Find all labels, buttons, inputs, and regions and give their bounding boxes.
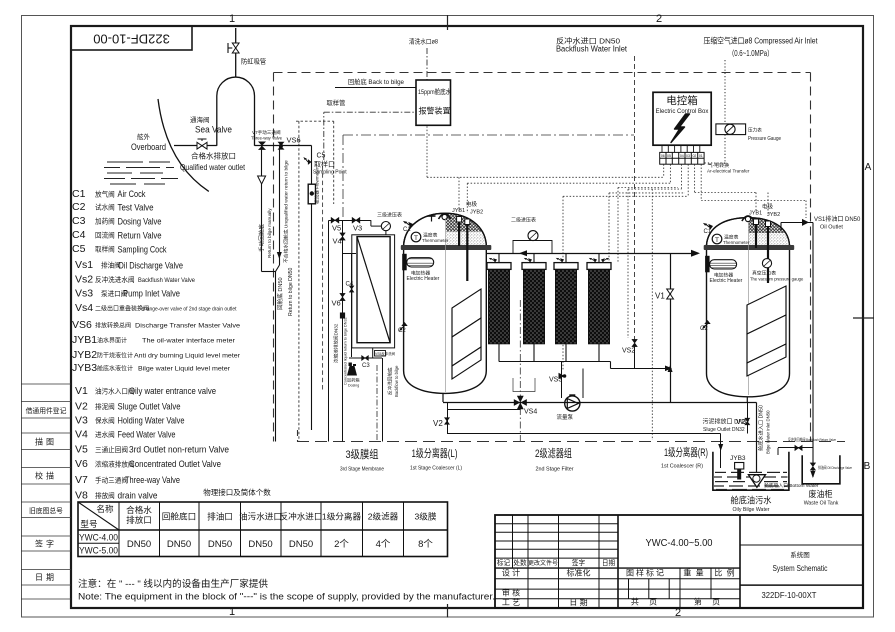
svg-text:1级分离器(R): 1级分离器(R) — [664, 445, 708, 459]
svg-text:1: 1 — [229, 606, 235, 618]
svg-text:C2: C2 — [700, 326, 708, 332]
svg-text:Oil Discharge Valve: Oil Discharge Valve — [118, 261, 183, 271]
svg-text:报警装置: 报警装置 — [419, 106, 451, 116]
left margin strip cells — [21, 384, 71, 599]
svg-text:舱底水液位计: 舱底水液位计 — [97, 365, 133, 373]
svg-text:V3: V3 — [353, 224, 362, 233]
svg-text:2级滤器: 2级滤器 — [368, 511, 399, 522]
svg-text:二级进压表: 二级进压表 — [511, 217, 536, 224]
gooseneck vent pipe — [217, 77, 255, 146]
svg-text:油水界面计: 油水界面计 — [97, 337, 127, 345]
svg-text:Electric Control Box: Electric Control Box — [656, 109, 709, 115]
tank L flange — [401, 245, 492, 250]
svg-text:VS5反冲洗阀: VS5反冲洗阀 — [375, 351, 396, 356]
sampling boundary dash-dot — [343, 134, 634, 136]
cock C2 tank L — [399, 322, 408, 331]
drain V2 tank L — [447, 403, 449, 434]
svg-text:V3: V3 — [75, 415, 88, 427]
tank L centerline — [445, 218, 447, 392]
svg-text:加药箱: 加药箱 — [347, 377, 360, 384]
svg-text:取样口: 取样口 — [314, 160, 335, 169]
svg-text:Air Cock: Air Cock — [118, 189, 146, 199]
tank L bottom nozzle — [442, 393, 444, 402]
svg-text:重 量: 重 量 — [683, 568, 704, 578]
svg-text:Vs4: Vs4 — [75, 302, 93, 314]
svg-text:标记: 标记 — [497, 558, 511, 567]
svg-text:设 计: 设 计 — [502, 568, 520, 578]
svg-text:15ppm舱底水: 15ppm舱底水 — [418, 87, 451, 96]
svg-text:Sluge Outlet DN32: Sluge Outlet DN32 — [703, 427, 745, 433]
membrane frame — [352, 235, 395, 348]
tank L dome — [404, 213, 487, 245]
svg-text:视流器 Flowmeter: 视流器 Flowmeter — [314, 167, 321, 204]
svg-text:Vs3: Vs3 — [75, 288, 93, 300]
svg-text:排放转换总阀: 排放转换总阀 — [95, 322, 131, 330]
valve V3 — [352, 217, 360, 222]
svg-text:drain valve: drain valve — [118, 491, 158, 501]
svg-text:Bilge water Liquid level meter: Bilge water Liquid level meter — [138, 367, 230, 373]
svg-text:反冲洗回舱阀 Backflush Return Valve: 反冲洗回舱阀 Backflush Return Valve — [788, 437, 836, 442]
valve V4 feed line — [342, 221, 344, 442]
tank R centerline — [748, 222, 750, 395]
hull curve — [158, 99, 209, 191]
svg-text:The oil-water interface meter: The oil-water interface meter — [142, 339, 235, 345]
flow indicator — [308, 184, 315, 204]
valve V7 three-way — [258, 142, 266, 150]
pressure gauge air — [716, 124, 746, 135]
svg-text:Oily water entrance valve: Oily water entrance valve — [129, 386, 216, 396]
svg-text:C2: C2 — [398, 328, 406, 334]
tank R dome — [707, 218, 790, 245]
zone tick bottom — [447, 604, 449, 618]
filter bank 2nd stage — [487, 253, 672, 371]
svg-text:压缩空气进口ø8 Compressed Air Inlet: 压缩空气进口ø8 Compressed Air Inlet — [704, 36, 819, 46]
svg-text:物理接口及筒体个数: 物理接口及筒体个数 — [203, 487, 271, 497]
svg-text:VS2: VS2 — [622, 348, 635, 355]
svg-text:Oily Bilge Water: Oily Bilge Water — [733, 507, 770, 513]
svg-text:System Schematic: System Schematic — [773, 564, 828, 573]
svg-text:C1: C1 — [704, 229, 712, 235]
svg-text:舱底油污水: 舱底油污水 — [731, 495, 772, 506]
svg-text:1: 1 — [229, 13, 235, 25]
svg-text:Holding Water Valve: Holding Water Valve — [118, 416, 185, 426]
svg-text:1st Coalescer (R): 1st Coalescer (R) — [661, 464, 703, 470]
filter F4 — [587, 253, 611, 343]
backflush return valve line — [777, 448, 779, 455]
svg-text:Vs1: Vs1 — [75, 259, 93, 271]
svg-text:通海阀: 通海阀 — [190, 115, 210, 124]
valve sea valve — [197, 142, 207, 149]
svg-text:VS1排油口 DN50: VS1排油口 DN50 — [814, 215, 861, 223]
bottom pipe tank L outlet — [443, 402, 671, 404]
svg-text:（0.6~1.0MPa）: （0.6~1.0MPa） — [728, 49, 773, 58]
cock C1 tank L — [403, 219, 414, 230]
svg-text:保水阀: 保水阀 — [95, 416, 115, 425]
membrane element with diagonal — [357, 237, 390, 343]
tank R bottom nozzle — [746, 397, 748, 403]
svg-text:日 期: 日 期 — [569, 598, 587, 607]
filter F3 — [554, 253, 578, 343]
svg-text:Electric Heater: Electric Heater — [407, 276, 440, 282]
svg-text:试水阀: 试水阀 — [95, 203, 115, 212]
svg-text:Anti dry burning Liquid level: Anti dry burning Liquid level meter — [134, 354, 240, 360]
svg-text:C5: C5 — [72, 243, 86, 255]
tank L shell — [404, 250, 487, 393]
wire flushing water dash-dot down — [426, 48, 428, 80]
svg-text:C3: C3 — [362, 363, 370, 369]
svg-text:JYB2: JYB2 — [767, 212, 780, 218]
physical connection table — [78, 502, 448, 557]
svg-text:V4: V4 — [75, 429, 88, 441]
svg-text:取样阀: 取样阀 — [95, 245, 115, 254]
svg-text:V6: V6 — [75, 458, 88, 470]
overboard discharge pipe — [174, 145, 217, 147]
svg-text:VS3: VS3 — [549, 377, 562, 384]
arrow on manifold — [665, 366, 672, 372]
thermometer tank R — [712, 234, 722, 244]
membrane bottom piping — [372, 348, 374, 358]
15ppm bilge alarm device — [416, 80, 451, 125]
fitting below V6 — [340, 313, 345, 319]
svg-text:防虹吸管: 防虹吸管 — [241, 57, 266, 66]
svg-text:三通止回阀: 三通止回阀 — [95, 445, 128, 454]
suction strainer funnel — [748, 475, 765, 488]
svg-text:8个: 8个 — [418, 539, 433, 550]
svg-text:B: B — [864, 461, 871, 472]
drain line to bilge tank — [447, 433, 721, 435]
svg-text:3rd Stage Membrane: 3rd Stage Membrane — [340, 467, 384, 473]
title block — [495, 515, 863, 608]
tank L lifting lug — [439, 214, 451, 219]
pipe clean water riser — [311, 146, 313, 431]
svg-text:油污水进口: 油污水进口 — [239, 511, 282, 522]
funnel air gap — [258, 176, 266, 184]
thermometer tank L — [411, 232, 421, 242]
control signal dotted harness — [427, 125, 806, 440]
svg-text:2: 2 — [656, 13, 662, 25]
svg-text:C1: C1 — [403, 227, 411, 233]
svg-text:放气阀: 放气阀 — [95, 190, 115, 199]
svg-text:3rd Outlet non-return Valve: 3rd Outlet non-return Valve — [129, 445, 229, 455]
svg-text:旧底图总号: 旧底图总号 — [29, 506, 63, 515]
svg-text:Test Valve: Test Valve — [118, 203, 154, 213]
svg-text:1级分离器(L): 1级分离器(L) — [412, 446, 458, 460]
svg-text:浓缩液排放阀DN32: 浓缩液排放阀DN32 — [333, 323, 340, 363]
svg-text:C1: C1 — [72, 188, 86, 200]
svg-text:废油柜: 废油柜 — [809, 489, 833, 499]
svg-text:更改文件号: 更改文件号 — [528, 559, 558, 567]
dosing pump and tank — [347, 366, 357, 376]
svg-text:反冲洗进水阀: 反冲洗进水阀 — [95, 275, 135, 284]
svg-text:YWC-5.00: YWC-5.00 — [79, 546, 118, 557]
svg-text:DN50: DN50 — [127, 539, 151, 550]
svg-text:V7: V7 — [75, 474, 88, 486]
svg-text:Concentrated liquid return to: Concentrated liquid return to bilge DN32 — [344, 317, 348, 385]
bilge water tank — [713, 452, 819, 513]
svg-text:排油口: 排油口 — [207, 511, 233, 522]
svg-text:YWC-4.00: YWC-4.00 — [79, 533, 118, 544]
vent fitting tank L — [431, 216, 433, 222]
svg-text:DN50: DN50 — [289, 539, 313, 550]
pipe return to bilge manually — [261, 146, 263, 177]
svg-text:T: T — [414, 235, 418, 242]
svg-text:V2: V2 — [75, 401, 88, 413]
valve V6 — [340, 293, 345, 300]
svg-text:T: T — [715, 237, 719, 244]
svg-text:比 例: 比 例 — [714, 568, 735, 578]
svg-text:1st Stage Coalescer (L): 1st Stage Coalescer (L) — [410, 466, 462, 472]
tank R flange — [704, 245, 795, 250]
svg-text:注意：在 " --- " 线以内的设备由生产厂家提供: 注意：在 " --- " 线以内的设备由生产厂家提供 — [78, 578, 269, 590]
svg-text:Backflush Water Valve: Backflush Water Valve — [138, 277, 195, 284]
sampling line dash-dot through VS4 — [519, 300, 521, 441]
backflush unit VS5 — [375, 351, 386, 357]
svg-text:2nd Stage Filter: 2nd Stage Filter — [536, 467, 574, 473]
tank R lifting lug — [742, 216, 754, 221]
svg-text:共 页: 共 页 — [631, 598, 661, 607]
svg-text:排泥阀: 排泥阀 — [95, 402, 115, 411]
svg-text:Dosing Valve: Dosing Valve — [118, 217, 162, 227]
valve VS3 and transfer pump — [561, 362, 563, 399]
svg-text:05: 05 — [667, 154, 671, 158]
svg-text:压力表: 压力表 — [748, 127, 762, 134]
svg-text:322DF-10-00: 322DF-10-00 — [93, 32, 170, 47]
svg-text:Pump Inlet Valve: Pump Inlet Valve — [123, 289, 180, 299]
svg-text:合格水: 合格水 — [126, 504, 152, 515]
svg-text:Qualified water outlet: Qualified water outlet — [180, 162, 246, 172]
svg-text:4个: 4个 — [376, 539, 391, 550]
pipe return to bilge down — [275, 272, 277, 442]
svg-text:322DF-10-00XT: 322DF-10-00XT — [762, 590, 817, 600]
wire backflush dashed down — [634, 56, 636, 340]
svg-text:标准化: 标准化 — [567, 568, 591, 578]
sludge drop into bilge tank — [720, 434, 722, 469]
anti-siphon pipe from top border — [235, 28, 237, 78]
svg-text:描图: 描图 — [35, 437, 57, 447]
svg-text:舷外: 舷外 — [137, 132, 151, 141]
svg-text:Concentrated Outlet Valve: Concentrated Outlet Valve — [129, 459, 221, 469]
valve oil discharge — [810, 463, 815, 470]
svg-text:工 艺: 工 艺 — [502, 598, 520, 607]
svg-text:Electric Heater: Electric Heater — [710, 278, 743, 284]
svg-text:Overboard: Overboard — [131, 142, 166, 152]
svg-text:change-over valve of 2nd stage: change-over valve of 2nd stage drain out… — [142, 307, 238, 313]
suction pipe bilge to manifold — [671, 402, 757, 404]
svg-text:三级进压表: 三级进压表 — [377, 212, 402, 219]
svg-text:V1: V1 — [75, 385, 88, 397]
svg-text:V4: V4 — [333, 237, 342, 246]
svg-text:V2: V2 — [433, 419, 443, 428]
svg-text:电极: 电极 — [466, 200, 478, 208]
bilge water surface dashes — [714, 472, 788, 489]
svg-text:Backflow to bilge: Backflow to bilge — [394, 365, 399, 397]
svg-text:加药阀: 加药阀 — [95, 217, 115, 226]
sludge drain tank R V2 — [747, 403, 749, 434]
svg-text:Pressure Gauge: Pressure Gauge — [748, 136, 781, 142]
svg-text:Three-way Valve: Three-way Valve — [125, 475, 180, 485]
pipe unqualified water return — [279, 146, 281, 266]
svg-text:型号: 型号 — [80, 519, 97, 529]
svg-text:校描: 校描 — [35, 471, 57, 481]
svg-text:2个: 2个 — [334, 539, 349, 550]
svg-text:流量泵: 流量泵 — [557, 413, 574, 421]
svg-text:A: A — [865, 162, 872, 173]
tank R internal coalescer plates — [747, 286, 786, 376]
svg-text:合格水排放口: 合格水排放口 — [191, 151, 236, 161]
valve VS4 change-over — [514, 396, 527, 410]
membrane unit 3rd stage — [329, 212, 403, 442]
svg-text:Three-way Valve: Three-way Valve — [251, 136, 283, 141]
svg-text:V1: V1 — [655, 292, 665, 301]
valve VS6 — [279, 144, 283, 148]
valve V5 line — [329, 220, 371, 222]
svg-text:04: 04 — [680, 154, 684, 158]
cock C1 tank R — [703, 221, 714, 232]
dotted enclosure left — [296, 120, 334, 122]
svg-text:03: 03 — [686, 154, 690, 158]
svg-text:YWC-4.00~5.00: YWC-4.00~5.00 — [646, 537, 713, 549]
svg-text:Sea Valve: Sea Valve — [195, 125, 232, 135]
svg-text:2级滤器组: 2级滤器组 — [535, 446, 572, 460]
svg-text:JYB1: JYB1 — [72, 334, 97, 346]
sea water hatching — [104, 162, 178, 184]
svg-text:DN50: DN50 — [208, 539, 232, 550]
svg-text:JYB3: JYB3 — [730, 455, 746, 462]
valve C3 dosing — [362, 356, 369, 361]
svg-text:图样标记: 图样标记 — [626, 568, 666, 578]
svg-text:Return Valve: Return Valve — [118, 231, 162, 241]
svg-text:排放口: 排放口 — [126, 514, 152, 525]
svg-text:DN50: DN50 — [167, 539, 191, 550]
svg-text:排放阀: 排放阀 — [95, 491, 115, 500]
pipe back to bilge from alarm — [335, 87, 416, 89]
svg-text:Return to bilge manually: Return to bilge manually — [267, 208, 272, 258]
svg-text:C4: C4 — [72, 229, 86, 241]
backflush return line — [382, 358, 384, 442]
svg-text:电控箱: 电控箱 — [666, 94, 698, 107]
svg-text:Bilge Water Inlet DN50: Bilge Water Inlet DN50 — [766, 410, 771, 454]
title strip box 322DF-10-00 rotated — [71, 26, 192, 50]
svg-text:回舱底口: 回舱底口 — [162, 511, 196, 522]
svg-text:Discharge Transfer Master Valv: Discharge Transfer Master Valve — [135, 323, 241, 330]
arrow down on return pipe — [277, 252, 282, 259]
sampling pipe to alarm dash-dot — [323, 112, 325, 160]
svg-text:反冲水进口: 反冲水进口 — [280, 511, 323, 522]
svg-text:进水阀: 进水阀 — [95, 430, 115, 439]
svg-text:Return to bilge DN50: Return to bilge DN50 — [288, 267, 294, 316]
svg-text:取样管: 取样管 — [327, 98, 346, 107]
svg-text:真空压力表: 真空压力表 — [752, 270, 776, 277]
filter outlet manifold — [499, 344, 671, 369]
svg-text:借通用件登记: 借通用件登记 — [26, 406, 67, 415]
svg-text:日期: 日期 — [602, 559, 616, 567]
svg-text:第 页: 第 页 — [694, 597, 724, 607]
svg-text:日期: 日期 — [35, 573, 57, 582]
svg-text:不合格水回舱底 Unqualified water retu: 不合格水回舱底 Unqualified water return to bilg… — [283, 160, 290, 263]
lightning bolt symbol — [671, 114, 690, 143]
svg-text:V2: V2 — [736, 417, 745, 426]
svg-text:回舱底 DN50: 回舱底 DN50 — [276, 277, 284, 310]
svg-text:C2: C2 — [72, 201, 86, 213]
vacuum gauge tank R — [762, 259, 771, 268]
svg-text:手动三通阀: 手动三通阀 — [95, 476, 128, 485]
zone tick right — [853, 317, 874, 319]
svg-text:JYB1: JYB1 — [749, 211, 762, 217]
svg-text:审 核: 审 核 — [502, 588, 520, 598]
svg-text:1级分离器: 1级分离器 — [322, 511, 362, 522]
svg-text:Note: The equipment in the blo: Note: The equipment in the block of "---… — [78, 592, 495, 603]
tank R shell — [707, 250, 790, 397]
svg-text:Waste Oil Tank: Waste Oil Tank — [804, 501, 839, 507]
filter F2 — [522, 253, 546, 343]
waste oil tank — [802, 455, 840, 506]
svg-text:回流阀: 回流阀 — [95, 231, 115, 240]
svg-text:V8: V8 — [75, 490, 88, 502]
svg-text:Oil Outlet: Oil Outlet — [820, 225, 843, 231]
oil outlet VS1 line — [780, 222, 782, 230]
piping frame above VS4 — [513, 378, 535, 392]
svg-text:3级膜: 3级膜 — [415, 511, 437, 522]
svg-text:名称: 名称 — [96, 503, 114, 514]
svg-text:签字: 签字 — [35, 539, 57, 549]
svg-text:V5: V5 — [332, 224, 341, 233]
svg-text:Ar-electrical Transfer: Ar-electrical Transfer — [707, 169, 750, 174]
svg-text:Backflush Water Inlet: Backflush Water Inlet — [556, 45, 628, 54]
electric heater tank L — [402, 254, 407, 270]
svg-text:02: 02 — [692, 154, 696, 158]
valve VS2 backflush inlet — [632, 339, 637, 346]
tank L 1st stage coalescer L — [398, 200, 491, 402]
svg-text:VS6: VS6 — [72, 319, 92, 331]
svg-text:JYB2: JYB2 — [470, 210, 483, 216]
supply scope dashed boundary bottom — [297, 441, 845, 443]
legend list — [72, 188, 97, 502]
zone tick top — [447, 15, 449, 30]
pipe second outlet line — [448, 409, 521, 411]
svg-text:回舱底 Back to bilge: 回舱底 Back to bilge — [348, 77, 404, 86]
svg-text:JYB2: JYB2 — [72, 349, 97, 361]
svg-text:VS4: VS4 — [524, 409, 537, 416]
svg-text:Sampling Cock: Sampling Cock — [118, 245, 167, 255]
svg-text:Sluge Outlet Valve: Sluge Outlet Valve — [118, 402, 181, 412]
svg-text:Feed Water Valve: Feed Water Valve — [118, 430, 176, 440]
svg-text:Thermometer: Thermometer — [723, 240, 750, 245]
wire compressed air dotted down — [724, 60, 726, 124]
filter F1 — [487, 253, 511, 343]
terminal strip leads — [662, 145, 700, 152]
svg-text:The vacuum pressure gauge: The vacuum pressure gauge — [750, 277, 804, 282]
svg-text:DN50: DN50 — [248, 539, 272, 550]
svg-text:清洗水口ø8: 清洗水口ø8 — [409, 37, 438, 46]
svg-text:处数: 处数 — [513, 558, 527, 567]
svg-text:Vs2: Vs2 — [75, 274, 93, 286]
electric control box U1 — [653, 92, 711, 145]
arrow into tank R — [691, 250, 700, 257]
svg-text:手动回舱底: 手动回舱底 — [258, 224, 266, 252]
svg-text:01: 01 — [699, 154, 703, 158]
svg-text:V6: V6 — [332, 299, 341, 308]
svg-text:V5: V5 — [75, 444, 88, 456]
cock C5 sampling — [303, 157, 311, 165]
svg-text:C3: C3 — [72, 215, 86, 227]
terminal strip air-electric transfer — [660, 152, 704, 164]
electric heater tank R — [705, 256, 710, 272]
svg-text:系统图: 系统图 — [790, 550, 810, 559]
supply scope dashed boundary box — [274, 73, 811, 442]
svg-text:3级膜组: 3级膜组 — [346, 447, 379, 461]
svg-text:排油阀 Oil Discharge Valve: 排油阀 Oil Discharge Valve — [818, 465, 852, 470]
svg-text:Dosing: Dosing — [348, 384, 359, 388]
